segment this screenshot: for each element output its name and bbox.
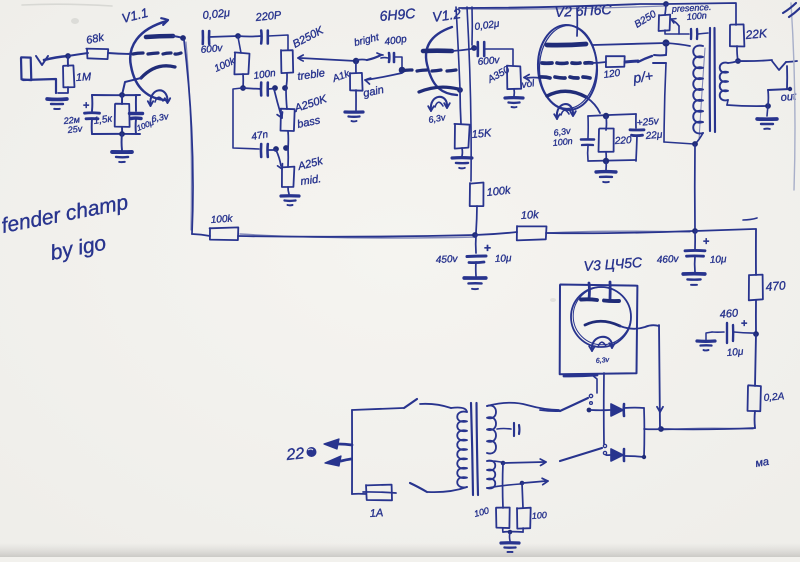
- svg-text:470: 470: [765, 278, 786, 294]
- svg-text:p/+: p/+: [631, 67, 654, 86]
- svg-text:+: +: [741, 318, 747, 330]
- svg-text:10μ: 10μ: [726, 347, 744, 359]
- svg-text:+: +: [83, 100, 89, 112]
- svg-text:600v: 600v: [200, 43, 224, 56]
- svg-text:+: +: [484, 241, 491, 255]
- svg-text:22K: 22K: [744, 26, 768, 42]
- svg-text:460: 460: [719, 307, 739, 321]
- svg-text:6,3v: 6,3v: [596, 357, 610, 365]
- svg-text:0,2A: 0,2A: [763, 391, 785, 404]
- svg-text:25v: 25v: [66, 123, 83, 135]
- svg-text:22: 22: [285, 445, 306, 464]
- svg-text:460v: 460v: [657, 254, 680, 266]
- svg-text:450v: 450v: [436, 254, 459, 266]
- svg-text:100k: 100k: [210, 213, 233, 226]
- svg-text:15K: 15K: [471, 127, 492, 141]
- svg-text:+: +: [703, 236, 709, 248]
- svg-text:100k: 100k: [486, 185, 511, 199]
- svg-text:220: 220: [614, 135, 633, 147]
- svg-text:100n: 100n: [552, 136, 573, 148]
- svg-text:22μ: 22μ: [644, 130, 663, 143]
- svg-text:100n: 100n: [686, 10, 707, 22]
- svg-text:1A: 1A: [369, 507, 383, 520]
- svg-text:10μ: 10μ: [495, 253, 513, 265]
- svg-text:V2 6П6С: V2 6П6С: [554, 1, 612, 20]
- svg-text:600v: 600v: [477, 55, 501, 68]
- svg-text:10μ: 10μ: [710, 254, 728, 266]
- svg-text:100: 100: [531, 510, 547, 521]
- svg-text:1M: 1M: [76, 71, 93, 84]
- svg-text:6Н9С: 6Н9С: [379, 5, 417, 24]
- svg-text:ма: ма: [754, 456, 770, 470]
- svg-text:10k: 10k: [521, 209, 540, 222]
- svg-text:+25v: +25v: [636, 116, 660, 129]
